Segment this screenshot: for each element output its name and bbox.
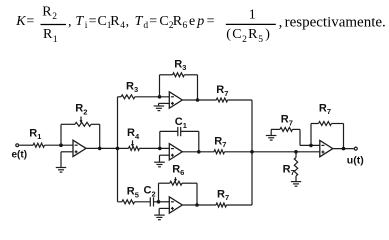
- svg-text:R: R: [173, 14, 183, 29]
- svg-text:respectivamente.: respectivamente.: [285, 15, 386, 31]
- svg-text:C: C: [232, 27, 241, 42]
- svg-text:(: (: [226, 27, 231, 42]
- svg-text:e: e: [189, 14, 195, 29]
- svg-text:,: ,: [279, 15, 283, 31]
- svg-text:R: R: [110, 14, 120, 29]
- svg-text:2: 2: [52, 12, 57, 22]
- svg-text:R: R: [43, 27, 53, 42]
- svg-text:C: C: [98, 14, 107, 29]
- svg-text:u(t): u(t): [347, 154, 364, 166]
- svg-text:6: 6: [183, 21, 188, 31]
- svg-text:K: K: [15, 14, 26, 29]
- svg-text:e(t): e(t): [12, 149, 28, 160]
- svg-text:p: p: [196, 14, 204, 29]
- svg-text:d: d: [143, 21, 148, 31]
- svg-text:i: i: [85, 21, 88, 31]
- svg-text:2: 2: [242, 35, 247, 45]
- svg-text:): ): [265, 27, 270, 42]
- svg-text:R: R: [248, 27, 258, 42]
- svg-text:=: =: [89, 14, 97, 29]
- svg-text:C: C: [159, 14, 168, 29]
- svg-text:T: T: [135, 14, 144, 29]
- svg-text:=: =: [26, 14, 34, 29]
- svg-text:,: ,: [68, 14, 72, 29]
- svg-text:5: 5: [258, 35, 263, 45]
- svg-text:R: R: [42, 5, 52, 20]
- svg-text:1: 1: [53, 35, 58, 45]
- svg-text:4: 4: [120, 21, 125, 31]
- svg-text:T: T: [75, 14, 84, 29]
- svg-text:1: 1: [249, 7, 256, 22]
- svg-text:=: =: [149, 14, 157, 29]
- svg-text:,: ,: [126, 14, 130, 29]
- svg-text:=: =: [207, 14, 215, 29]
